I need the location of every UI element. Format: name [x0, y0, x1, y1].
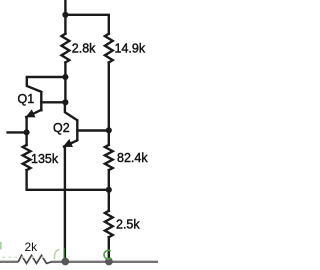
svg-text:Q2: Q2: [53, 121, 70, 135]
svg-text:14.9k: 14.9k: [115, 42, 146, 56]
svg-text:2.5k: 2.5k: [116, 218, 140, 232]
svg-text:82.4k: 82.4k: [117, 151, 148, 165]
svg-text:135k: 135k: [31, 152, 59, 166]
svg-text:Q1: Q1: [18, 92, 35, 106]
svg-text:2k: 2k: [25, 240, 39, 254]
svg-text:2.8k: 2.8k: [72, 42, 96, 56]
